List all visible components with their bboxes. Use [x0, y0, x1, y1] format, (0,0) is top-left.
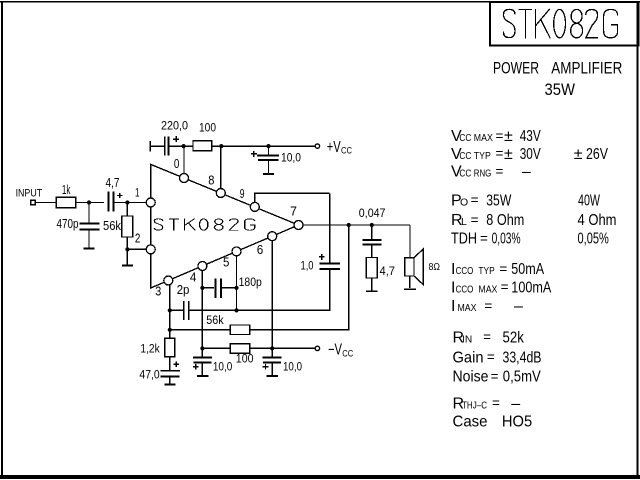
- svg-text:=: =: [499, 262, 507, 277]
- svg-text:IN: IN: [462, 333, 472, 345]
- svg-text:4 Ohm: 4 Ohm: [578, 212, 617, 229]
- wire feedback vertical (pin9 net): [329, 193, 331, 263]
- wire to speaker: [409, 225, 411, 258]
- svg-text:8: 8: [208, 173, 214, 187]
- svg-text:Gain: Gain: [453, 349, 484, 366]
- svg-text:8 Ohm: 8 Ohm: [486, 212, 524, 229]
- svg-text:–: –: [514, 298, 523, 315]
- svg-text:CC: CC: [459, 132, 471, 144]
- ground (speaker): [404, 288, 416, 290]
- node N (junction): [347, 223, 351, 227]
- svg-text:TYP: TYP: [474, 150, 491, 162]
- svg-text:8Ω: 8Ω: [429, 261, 441, 273]
- input terminal: [31, 200, 35, 204]
- op-amp U1 STK082G triangle: [151, 164, 299, 288]
- svg-text:50mA: 50mA: [511, 261, 544, 278]
- node C (junction): [125, 247, 129, 251]
- svg-text:2: 2: [135, 232, 141, 246]
- pin 6: [268, 232, 277, 241]
- wire pin4 down: [201, 271, 203, 358]
- svg-text:=: =: [496, 129, 504, 144]
- svg-text:+V: +V: [327, 139, 341, 156]
- spec line Noise: [453, 369, 542, 386]
- svg-text:26V: 26V: [586, 146, 608, 163]
- svg-text:1,0: 1,0: [301, 258, 314, 272]
- svg-text:=: =: [484, 298, 492, 313]
- ground (10,0 left): [197, 375, 208, 377]
- svg-text:CC: CC: [459, 150, 471, 162]
- svg-text:TYP: TYP: [478, 265, 494, 277]
- capacitor 4,7 (electrolytic): [108, 192, 122, 212]
- svg-text:MAX: MAX: [478, 283, 497, 295]
- svg-text:CCO: CCO: [456, 265, 474, 277]
- spec line Icco max: [451, 279, 552, 296]
- svg-text:470p: 470p: [57, 217, 79, 231]
- capacitor 47,0 (electrolytic): [160, 361, 180, 383]
- label -Vcc: [328, 342, 353, 360]
- label +Vcc: [327, 139, 352, 157]
- resistor 1,2k: [165, 338, 175, 369]
- svg-text:HO5: HO5: [502, 414, 532, 431]
- svg-text:100mA: 100mA: [511, 279, 551, 296]
- svg-text:±: ±: [504, 128, 513, 145]
- svg-text:10,0: 10,0: [213, 361, 232, 373]
- resistor 4,7 (output): [366, 258, 377, 291]
- capacitor 10,0 (left bottom, electrolytic): [193, 358, 212, 376]
- svg-text:52k: 52k: [503, 329, 525, 346]
- svg-text:=: =: [496, 146, 504, 161]
- pin 4: [198, 262, 207, 271]
- node K (junction): [168, 328, 172, 332]
- node J (junction): [234, 286, 238, 290]
- svg-text:POWER: POWER: [493, 60, 539, 78]
- node G (junction): [168, 308, 172, 312]
- svg-text:6: 6: [257, 243, 264, 257]
- ground (470p): [84, 247, 95, 249]
- wire input to R 1k: [35, 202, 56, 204]
- svg-text:0,047: 0,047: [359, 206, 386, 220]
- spec line Rin: [453, 329, 525, 346]
- pin 1: [146, 198, 155, 207]
- node A (junction): [87, 200, 91, 204]
- resistor 100 (top): [193, 141, 212, 151]
- resistor 56k (feedback): [170, 225, 349, 335]
- svg-text:CC: CC: [341, 146, 352, 157]
- pin 3: [164, 276, 173, 285]
- svg-text:CC: CC: [342, 349, 353, 360]
- svg-text:100: 100: [236, 353, 254, 365]
- svg-text:100: 100: [199, 122, 216, 134]
- svg-text:=: =: [471, 193, 479, 208]
- title box: [490, 2, 639, 46]
- node F (junction): [266, 144, 270, 148]
- svg-text:=: =: [491, 369, 499, 384]
- capacitor 0,047: [363, 225, 382, 258]
- pin 5: [232, 247, 241, 256]
- svg-text:L: L: [461, 216, 467, 228]
- svg-text:CCO: CCO: [456, 283, 474, 295]
- +Vcc terminal: [315, 144, 319, 148]
- node O (junction): [370, 223, 374, 227]
- spec line RL: [451, 212, 617, 229]
- wire pin6 down: [271, 241, 273, 357]
- capacitor 2p: [170, 301, 189, 320]
- svg-text:1,2k: 1,2k: [140, 344, 160, 356]
- svg-text:INPUT: INPUT: [16, 188, 43, 200]
- svg-text:TDH: TDH: [451, 231, 477, 248]
- svg-text:47,0: 47,0: [139, 370, 159, 382]
- svg-text:56k: 56k: [206, 315, 224, 327]
- svg-text:=: =: [487, 350, 495, 365]
- capacitor 180p: [202, 278, 236, 298]
- svg-text:=: =: [480, 231, 488, 246]
- node M (junction): [270, 346, 274, 350]
- svg-text:4: 4: [190, 271, 197, 285]
- svg-text:0,5mV: 0,5mV: [503, 369, 541, 386]
- capacitor 10,0 (top, electrolytic): [251, 146, 279, 173]
- wire node C to pin 2: [127, 248, 146, 250]
- pin 9: [250, 202, 259, 211]
- wire R100 to +Vcc: [212, 145, 316, 147]
- pin 0: [180, 174, 189, 183]
- svg-text:=: =: [492, 396, 500, 411]
- svg-text:=: =: [483, 330, 491, 345]
- svg-text:30V: 30V: [520, 146, 541, 163]
- stub end (220,0 cap left): [150, 141, 164, 151]
- svg-text:180p: 180p: [239, 277, 262, 289]
- pin 8: [216, 189, 225, 198]
- svg-text:Noise: Noise: [453, 369, 489, 386]
- svg-text:=: =: [501, 280, 509, 295]
- ground (pin2 node): [122, 264, 133, 266]
- svg-text:2p: 2p: [177, 283, 190, 297]
- svg-text:1: 1: [135, 187, 140, 199]
- capacitor 1,0 (electrolytic): [319, 254, 340, 269]
- svg-text:I: I: [451, 298, 455, 315]
- svg-text:10,0: 10,0: [283, 361, 302, 373]
- svg-text:5: 5: [223, 256, 229, 270]
- svg-text:4,7: 4,7: [106, 176, 120, 190]
- svg-text:RNG: RNG: [474, 168, 492, 180]
- capacitor 10,0 (right bottom, electrolytic): [263, 358, 282, 376]
- wire pin3 down: [169, 285, 171, 338]
- node E (junction): [219, 144, 223, 148]
- svg-text:1k: 1k: [62, 183, 71, 197]
- node D (junction): [182, 144, 186, 148]
- svg-text:35W: 35W: [545, 81, 576, 99]
- node I (junction): [200, 286, 204, 290]
- spec line Gain: [453, 349, 542, 366]
- spec line TDH: [451, 231, 609, 248]
- ground (10,0 right): [267, 375, 279, 377]
- svg-text:−V: −V: [328, 342, 342, 359]
- svg-text:–: –: [511, 395, 520, 412]
- svg-text:MAX: MAX: [458, 302, 477, 314]
- spec line Imax: [451, 298, 523, 315]
- svg-text:33,4dB: 33,4dB: [503, 349, 542, 366]
- ground (4,7): [366, 290, 377, 292]
- node H (junction): [234, 308, 238, 312]
- pin 7: [294, 221, 303, 230]
- node L (junction): [200, 346, 204, 350]
- svg-text:220,0: 220,0: [161, 120, 188, 132]
- bottom bar: [0, 475, 640, 479]
- svg-text:43V: 43V: [520, 128, 541, 145]
- svg-text:Case: Case: [453, 414, 488, 431]
- svg-text:=: =: [471, 212, 479, 227]
- spec line Icco typ: [451, 261, 544, 278]
- spec line Case: [453, 414, 533, 431]
- wire pin 9 up and right: [255, 193, 330, 202]
- spec line Po: [451, 192, 601, 209]
- spec line Vcc typ: [451, 146, 608, 163]
- wire node D to pin 0: [183, 146, 185, 174]
- svg-text:±: ±: [504, 146, 513, 163]
- svg-text:0,05%: 0,05%: [578, 231, 609, 248]
- wire cap to R100: [170, 145, 194, 147]
- spec line Vcc max: [451, 128, 541, 145]
- wire 1k to node: [76, 202, 104, 204]
- svg-text:THJ–C: THJ–C: [462, 399, 487, 411]
- svg-text:–: –: [522, 164, 531, 181]
- capacitor 470p: [80, 203, 100, 248]
- node B (junction): [125, 200, 129, 204]
- svg-text:0: 0: [174, 157, 180, 171]
- svg-text:10,0: 10,0: [281, 151, 301, 165]
- spec line Vcc rng: [451, 164, 531, 181]
- svg-text:40W: 40W: [578, 192, 601, 209]
- ground (47,0): [164, 383, 175, 385]
- wire output: [303, 224, 410, 226]
- wire pin5 down: [236, 256, 238, 311]
- spec line Rthj-c: [453, 395, 521, 412]
- wire cap to pin 1: [114, 202, 146, 204]
- -Vcc terminal: [315, 346, 319, 350]
- svg-text:=: =: [496, 164, 504, 179]
- open end bar (10,0 top): [263, 173, 274, 175]
- capacitor 220,0 (electrolytic): [165, 136, 179, 156]
- pin 2: [146, 245, 155, 254]
- svg-text:AMPLIFIER: AMPLIFIER: [551, 60, 622, 78]
- heading POWER AMPLIFIER: [493, 60, 622, 78]
- resistor 56k (vertical): [122, 203, 133, 250]
- svg-text:4,7: 4,7: [380, 264, 396, 278]
- wire node C down: [126, 249, 128, 264]
- svg-text:0,03%: 0,03%: [492, 231, 521, 248]
- svg-text:7: 7: [290, 204, 297, 218]
- svg-text:9: 9: [240, 186, 245, 201]
- wire 1,0 down to 2p net: [190, 269, 330, 311]
- svg-text:35W: 35W: [486, 192, 512, 209]
- svg-text:56k: 56k: [103, 219, 122, 233]
- svg-text:±: ±: [574, 146, 583, 163]
- svg-text:3: 3: [155, 285, 161, 299]
- svg-text:O: O: [460, 196, 468, 208]
- wire -Vcc rail: [202, 347, 315, 349]
- svg-text:CC: CC: [459, 168, 471, 180]
- svg-text:MAX: MAX: [474, 132, 493, 144]
- speaker LS1: [405, 249, 424, 288]
- resistor 100 (on -Vcc rail): [230, 344, 250, 354]
- resistor 1k: [56, 197, 75, 207]
- wire node E to pin 8: [220, 146, 222, 189]
- label STK082G (inside op-amp): [154, 219, 254, 231]
